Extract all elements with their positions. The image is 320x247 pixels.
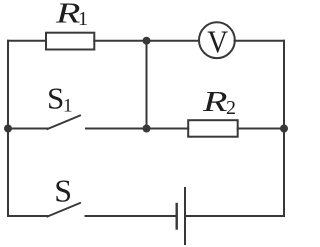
svg-text:R: R — [55, 0, 81, 29]
svg-text:2: 2 — [226, 97, 236, 119]
svg-text:1: 1 — [78, 8, 88, 30]
svg-text:S: S — [54, 173, 72, 209]
svg-text:S: S — [47, 81, 64, 116]
svg-text:V: V — [207, 24, 228, 60]
svg-text:1: 1 — [63, 96, 73, 117]
svg-text:R: R — [202, 85, 228, 117]
